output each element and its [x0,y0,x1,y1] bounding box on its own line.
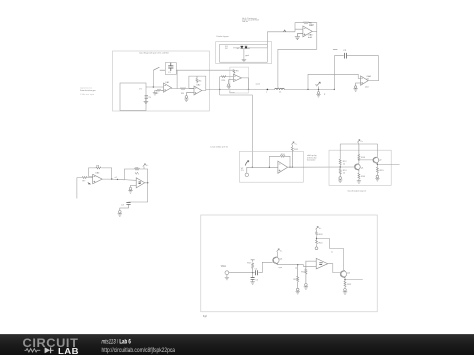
annotation box transistors [329,150,391,185]
annotation box clipper [216,42,272,64]
wire inner loop clipper [220,44,268,62]
op-amp buffer [234,74,242,81]
tick on wire [284,30,286,32]
wire diode center down [243,48,245,59]
svg-text:Class A output stage x2: Class A output stage x2 [347,189,366,192]
svg-text:LAB: LAB [58,347,79,355]
wire clipper up right [266,32,268,48]
wire node to opamp1 [146,86,164,88]
svg-text:V+: V+ [146,165,149,167]
resistor RB2 [339,169,341,177]
svg-text:V+: V+ [319,228,322,230]
op-amp OA2 [194,86,202,95]
junction drop wire [252,167,253,168]
svg-text:R7: R7 [83,180,87,182]
svg-text:Q4: Q4 [347,273,351,275]
svg-text:1k: 1k [343,172,345,174]
VCC arrow Q3 [277,249,280,257]
svg-text:Input Stage with gain of 11 an: Input Stage with gain of 11 and filter [139,52,169,55]
resistor OA6 feedback [135,168,140,174]
svg-text:R11: R11 [294,149,299,151]
svg-text:OA1: OA1 [165,81,170,84]
svg-text:x10: x10 [365,87,369,89]
wire cap to ground [118,204,129,216]
Q1 emitter chain [358,170,360,173]
resistor R3 inline [181,88,186,90]
svg-text:R14: R14 [361,157,366,159]
svg-text:C2: C2 [343,50,347,52]
source V1 [145,96,148,99]
capacitor C3 [126,202,130,204]
svg-text:Vin: Vin [221,265,228,268]
svg-text:Q3: Q3 [279,258,283,260]
svg-text:D2: D2 [225,48,229,50]
svg-text:C1: C1 [168,72,172,74]
svg-text:int: int [367,77,370,80]
op-amp OA8 [316,258,328,269]
plus ground OA6 [128,185,136,193]
junction [153,86,154,87]
wire inner loop rect [120,83,146,111]
clipper note [225,46,229,50]
svg-text:R5: R5 [236,71,240,73]
inductor inline [275,88,285,89]
resistor R6 [304,22,309,24]
plus input ground op2 [184,93,194,102]
svg-text:x: x [266,92,268,94]
svg-text:R22: R22 [347,284,352,286]
svg-text:g: g [324,94,326,96]
Q2 emitter node [377,164,399,168]
svg-text:V1: V1 [139,88,142,90]
svg-text:out1: out1 [256,83,261,86]
svg-text:d2: d2 [248,48,251,50]
resistor R10 [280,155,285,157]
svg-text:R8: R8 [96,166,100,168]
svg-text:1k: 1k [343,163,345,165]
transistor Q3 [273,257,279,265]
svg-text:buf1: buf1 [308,37,313,39]
svg-text:Q2: Q2 [379,159,383,161]
junction [219,89,220,90]
logo diode [41,348,50,353]
wire to Q3 base [262,262,272,272]
svg-text:V+: V+ [360,141,363,143]
svg-text:R3: R3 [181,93,185,95]
top rail [340,144,377,159]
wire OA7 out [288,166,355,168]
minus feedback network [304,261,317,289]
VCC chain top [316,226,319,229]
annotation box bottom [201,215,377,312]
transistor Q2 [373,157,379,164]
svg-text:gnd: gnd [245,55,249,57]
svg-text:npn: npn [279,267,283,269]
svg-text:R24: R24 [222,80,227,82]
resistor pull up [291,145,293,167]
wire input tap up [220,77,234,95]
op-amp OA4 [361,76,369,85]
resistor Rin [82,177,87,179]
wire cap right down [378,56,380,81]
svg-text:OA3: OA3 [310,23,315,26]
svg-text:mts113 / Lab 6: mts113 / Lab 6 [102,339,132,346]
plus ground op3 [295,34,303,40]
svg-text:1V: 1V [148,97,151,99]
ground plus input [153,90,157,95]
svg-text:Diode clipper: Diode clipper [217,35,230,38]
svg-text:vc: vc [331,252,333,254]
resistor RB1 [339,159,341,169]
VCC arrow transistors [357,140,360,145]
wire out OA5 [102,179,136,180]
svg-text:1 kHz sine input: 1 kHz sine input [80,93,95,96]
footer bar [0,334,474,355]
svg-text:R21: R21 [319,242,324,244]
resistor buffer input [221,76,225,78]
svg-text:R4: R4 [199,80,203,82]
svg-text:C3: C3 [121,205,125,207]
resistor R4 feedback [196,76,198,83]
wire op2 out exits box [202,89,210,90]
wire cap left down [333,56,335,90]
annotation box level shifter [240,151,304,182]
svg-text:Q1: Q1 [361,167,365,169]
wire op4 out [368,80,378,82]
wire long top right [176,69,234,71]
diode D1 [241,46,244,48]
input terminal [225,271,229,275]
Q1 collector chain [359,160,373,164]
coupling capacitor [253,272,263,274]
svg-text:OA5: OA5 [95,172,100,175]
transistor Q1 [354,163,360,170]
bias resistor up [251,260,255,273]
wire input down [77,178,82,199]
svg-text:transistor: transistor [307,159,316,162]
emitter wire right [278,264,317,266]
output resistor [343,281,347,294]
svg-text:fig2: fig2 [203,315,208,318]
op-amp OA6 [136,178,145,188]
feedback loop op3 [295,23,317,50]
wire mid row to op4 [308,74,361,89]
svg-text:From function gen: From function gen [80,89,96,92]
VCC arrow [143,164,146,169]
note text right [307,154,318,161]
ground clipper [242,60,247,62]
svg-text:R15: R15 [380,170,385,172]
dash label [333,48,338,50]
logo resistor squiggle [25,349,41,352]
wire feedback up [152,70,154,87]
resistor buffer feedback [233,70,235,75]
wire OA6 out down [129,183,148,202]
svg-text:R2: R2 [156,93,160,95]
ground [144,98,149,103]
svg-text:C5: C5 [255,279,259,281]
transistor Q4 [340,270,346,278]
resistor Rf [96,167,101,169]
svg-text:OA3: OA3 [308,33,313,36]
wire to op3 [267,29,303,32]
emitter node output [345,278,363,282]
feedback loop OA5 [89,168,112,179]
svg-text:R16: R16 [361,176,366,178]
wire drop to level shifter [220,95,253,167]
wire OA8 out to Q4 [328,264,340,273]
feedback loop OA7 [269,156,290,167]
svg-text:L1: L1 [279,92,282,94]
resistor R plus input [155,89,163,91]
buffer plus ground [227,80,234,89]
op-amp OA3 [303,26,312,37]
svg-text:V+: V+ [294,143,297,145]
resistor RE2 [376,167,378,175]
junction [248,89,249,90]
feedback loop op2 [189,76,206,90]
bias wire loop to Q4 collector [317,239,344,271]
svg-text:http://circuitlab.com/c8fjfspk: http://circuitlab.com/c8fjfspk22pca [102,347,176,354]
buffer stage annotation box [230,67,249,93]
annotation box block1 [113,51,210,111]
op-amp OA1 [164,83,172,92]
wire diode row [233,47,267,49]
wire op3 out [312,30,317,32]
plus ground op4 [353,83,360,91]
svg-text:Lab six: Lab six [242,21,248,23]
wire to op2 [186,88,195,90]
annotation note top [242,17,259,23]
feedback loop OA6 [124,169,147,183]
VCC arrow level shifter [291,142,294,145]
capacitor C feedback box [165,63,176,75]
pot to ground on wire [316,82,320,86]
capacitor C2 inline [334,55,378,57]
svg-text:2.5: 2.5 [241,170,245,172]
svg-text:d1: d1 [237,48,240,50]
wire input row [247,166,278,168]
main wire row [209,88,334,90]
wire op1 out [171,88,180,89]
wire feedback right down [176,70,178,88]
wire op3 bottom path [278,49,317,89]
bypass cap to ground [252,273,254,278]
buffer out wire [242,78,249,90]
ground under terminal [225,275,229,280]
diode D2 [245,46,248,48]
svg-text:R20: R20 [319,234,324,236]
op-amp OA5 [93,174,103,184]
source V2 [245,161,249,166]
dark mark labels [88,183,91,185]
resistor RC [358,144,360,160]
svg-text:V+: V+ [280,250,283,252]
emitter resistor to ground [296,265,300,294]
switch SW1 [153,67,165,70]
junction node x [267,89,269,91]
op-amp OA7 [278,161,288,173]
svg-text:Level shifter (2.5 V): Level shifter (2.5 V) [210,145,228,148]
ground RB2 [338,177,342,183]
svg-text:OA2: OA2 [196,83,201,86]
